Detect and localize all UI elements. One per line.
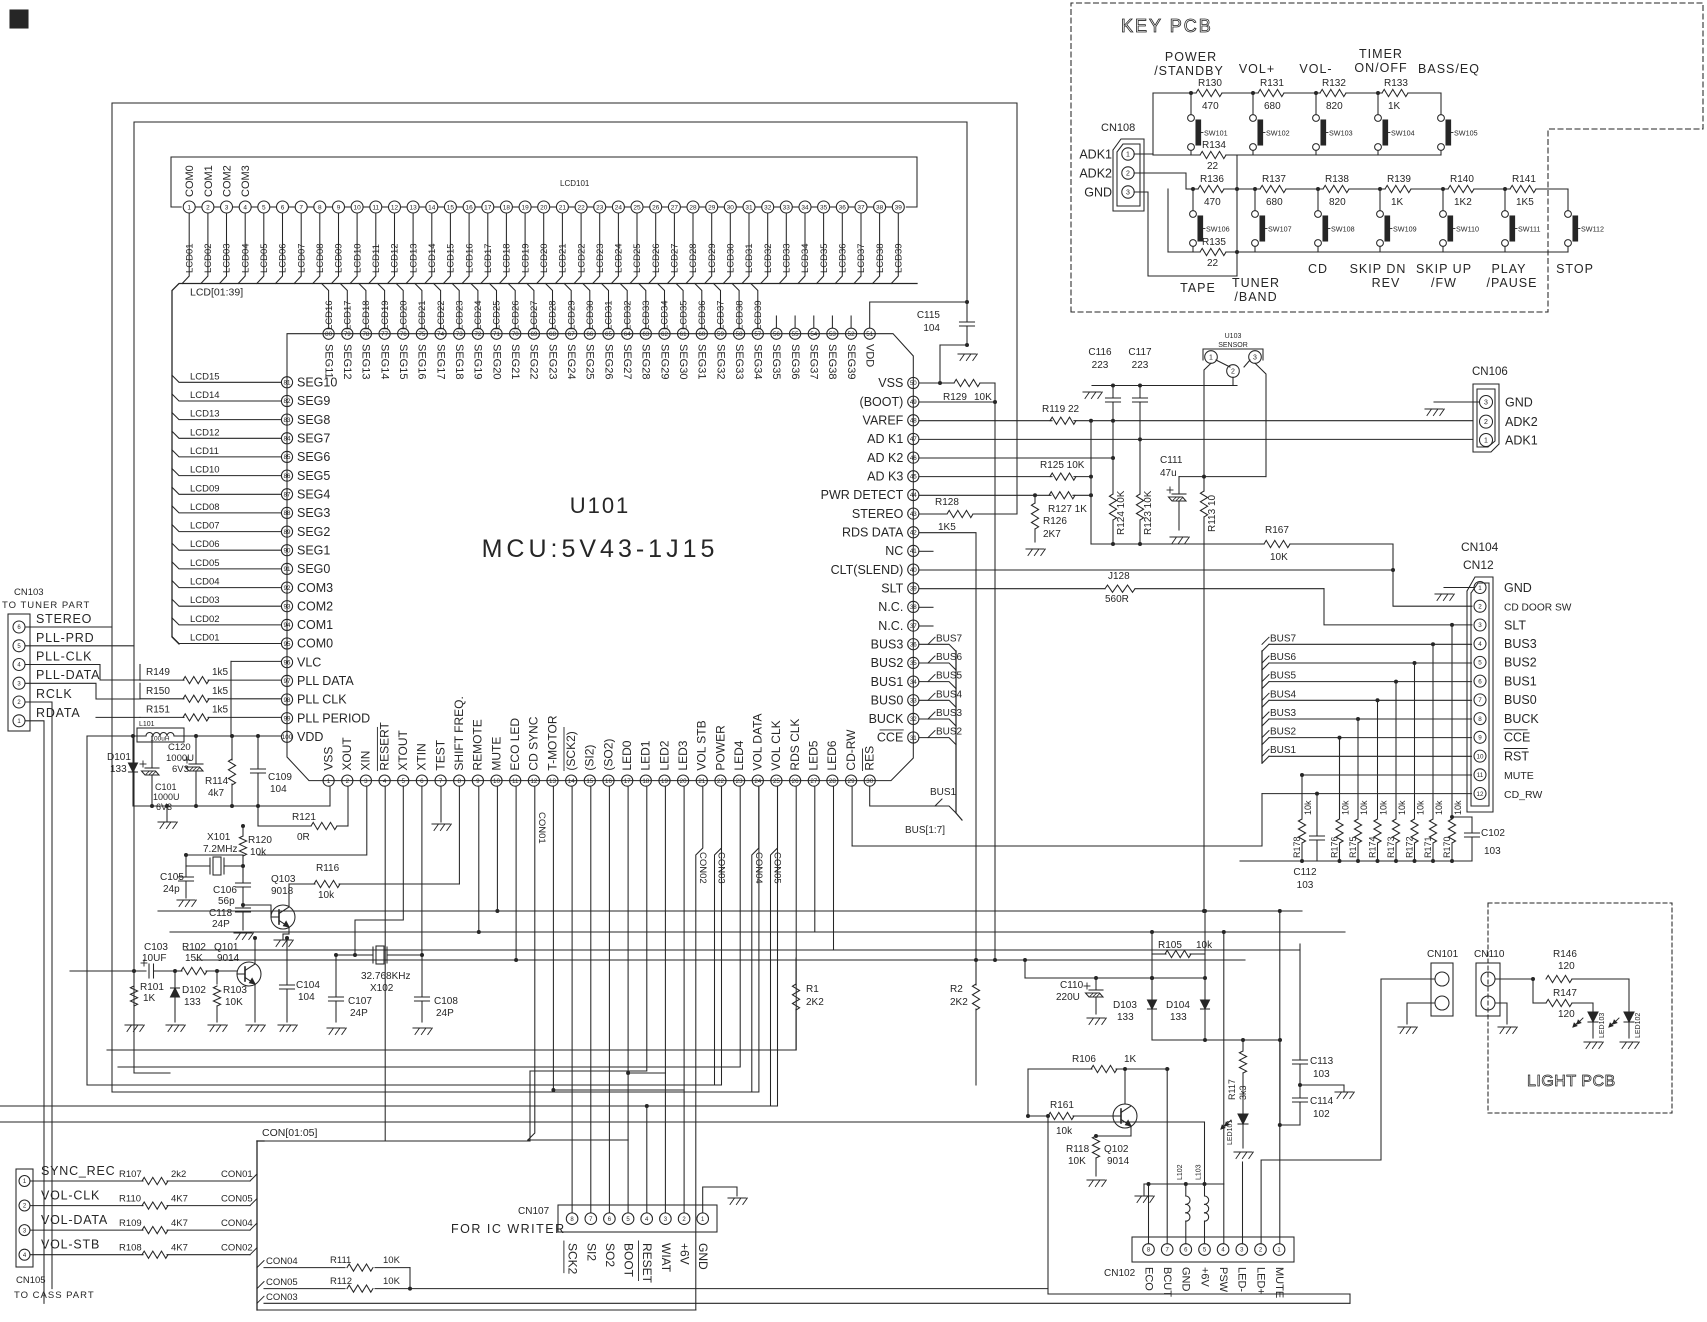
svg-text:73: 73 [456, 331, 463, 338]
ground [246, 1025, 265, 1032]
junction [1251, 91, 1255, 95]
svg-text:4: 4 [1478, 641, 1482, 648]
svg-text:LCD31: LCD31 [744, 243, 755, 273]
svg-text:LED0: LED0 [620, 740, 634, 770]
ground [1335, 1092, 1354, 1099]
svg-text:LCD20: LCD20 [398, 300, 409, 330]
svg-text:LCD28: LCD28 [548, 300, 559, 330]
svg-text:2k2: 2k2 [171, 1169, 186, 1180]
ground [958, 354, 977, 361]
svg-text:C103: C103 [144, 942, 168, 953]
svg-text:47: 47 [910, 436, 917, 443]
wire CN102 MUTE [1279, 911, 1281, 1244]
svg-text:RDS DATA: RDS DATA [842, 526, 904, 540]
svg-text:R130: R130 [1198, 78, 1222, 89]
junction [1202, 909, 1206, 913]
wire sensor pin2 [1232, 377, 1234, 385]
svg-text:GND: GND [1084, 186, 1112, 200]
svg-text:SEG38: SEG38 [826, 344, 838, 379]
svg-text:LED-: LED- [1236, 1267, 1248, 1292]
junction [1202, 475, 1206, 479]
wire BUS6 to resistor [1414, 663, 1416, 818]
svg-text:LED103: LED103 [1599, 1013, 1606, 1038]
junction [131, 734, 135, 738]
svg-text:2K7: 2K7 [1043, 529, 1061, 540]
svg-text:1K: 1K [1388, 101, 1401, 112]
svg-text:R103: R103 [223, 985, 247, 996]
wire CN110 pin2 to ground [1495, 1003, 1507, 1024]
svg-text:TUNER: TUNER [1232, 276, 1280, 290]
svg-text:16: 16 [605, 778, 612, 785]
svg-text:SCK2: SCK2 [566, 1243, 580, 1275]
svg-text:R175: R175 [1348, 836, 1358, 858]
svg-text:C110: C110 [1060, 980, 1084, 991]
svg-text:LCD01: LCD01 [190, 633, 220, 644]
svg-text:SEG26: SEG26 [602, 344, 614, 379]
svg-text:D102: D102 [182, 985, 206, 996]
capacitor C101 electrolytic [140, 736, 180, 812]
svg-text:37: 37 [857, 204, 865, 211]
wire BUS3 to resistor [1357, 719, 1359, 818]
ground [1087, 1180, 1106, 1187]
junction [173, 969, 177, 973]
capacitor C120 electrolytic [166, 736, 203, 806]
resistor R133 [1382, 78, 1408, 112]
resistor R125 [919, 460, 1091, 480]
svg-text:CN102: CN102 [1104, 1268, 1136, 1279]
connector CN104 CN12 [1461, 540, 1572, 812]
wire T-MOTOR pin13 [552, 786, 554, 1090]
svg-text:R135: R135 [1202, 237, 1226, 248]
svg-text:R141: R141 [1512, 174, 1536, 185]
wire to C114 node [1279, 1040, 1281, 1125]
connector CN107 [451, 1205, 717, 1284]
connector CN101 [1427, 949, 1459, 1016]
svg-text:R170: R170 [1442, 836, 1452, 858]
svg-text:T-MOTOR: T-MOTOR [545, 715, 559, 770]
resistor R126 [1031, 495, 1067, 542]
svg-text:AD K1: AD K1 [867, 432, 903, 446]
svg-text:5: 5 [626, 1217, 630, 1223]
svg-text:104: 104 [923, 323, 940, 334]
junction [495, 909, 499, 913]
junction [514, 958, 518, 962]
svg-text:RESET: RESET [640, 1243, 654, 1284]
svg-text:R101: R101 [140, 982, 164, 993]
svg-text:BUS2: BUS2 [1504, 656, 1537, 670]
connector CN103 [2, 587, 100, 731]
resistor R167 [1260, 525, 1393, 563]
wire gnd stem [1143, 1184, 1145, 1196]
LIGHT PCB title [1527, 1073, 1616, 1090]
svg-text:STOP: STOP [1556, 262, 1594, 276]
svg-text:XOUT: XOUT [340, 737, 354, 771]
svg-text:1: 1 [17, 719, 21, 725]
svg-text:99: 99 [284, 715, 291, 722]
resistor R135 [1200, 237, 1226, 269]
svg-text:21: 21 [698, 778, 705, 785]
resistor R101 [130, 971, 164, 1022]
svg-text:R110: R110 [119, 1194, 141, 1205]
wire inner perimeter net [134, 122, 967, 1073]
svg-text:R119 22: R119 22 [1042, 404, 1080, 415]
svg-text:SEG39: SEG39 [845, 344, 857, 379]
resistor R147 [1533, 979, 1593, 1020]
svg-text:CN110: CN110 [1474, 949, 1505, 960]
junction [993, 400, 997, 404]
svg-text:46: 46 [910, 455, 917, 462]
svg-text:17: 17 [624, 778, 631, 785]
svg-text:LCD13: LCD13 [408, 243, 419, 273]
capacitor C112 [1293, 832, 1324, 891]
svg-text:LCD05: LCD05 [190, 558, 220, 569]
svg-text:Q102: Q102 [1104, 1144, 1129, 1155]
resistor R111 [264, 1255, 410, 1289]
svg-text:R133: R133 [1384, 78, 1408, 89]
svg-text:78: 78 [362, 331, 369, 338]
svg-text:83: 83 [284, 417, 291, 424]
svg-text:BOOT: BOOT [622, 1243, 636, 1278]
svg-text:LCD12: LCD12 [390, 243, 401, 273]
svg-text:RCLK: RCLK [36, 687, 73, 701]
junction [1147, 1182, 1151, 1186]
svg-text:94: 94 [284, 622, 291, 629]
diode D101 [107, 736, 138, 806]
wire XTOUT pin5 [355, 786, 403, 955]
wire BUS4 to resistor [1377, 700, 1379, 818]
svg-text:PLL-CLK: PLL-CLK [36, 650, 92, 664]
wire row2 bottom left drop [1167, 189, 1169, 252]
svg-text:LCD06: LCD06 [190, 539, 220, 550]
junction [1450, 815, 1454, 819]
svg-text:SEG21: SEG21 [509, 344, 521, 379]
svg-text:SEG25: SEG25 [584, 344, 596, 379]
svg-text:9: 9 [1478, 735, 1482, 742]
junction [1203, 976, 1207, 980]
switch SW108 [1315, 189, 1355, 252]
svg-text:2: 2 [346, 778, 350, 785]
svg-text:LCD17: LCD17 [483, 243, 494, 273]
svg-text:SEG16: SEG16 [416, 344, 428, 379]
svg-text:TAPE: TAPE [1180, 281, 1216, 295]
svg-text:100uH: 100uH [150, 736, 169, 743]
wire LED2 pin19 [664, 786, 666, 1073]
svg-text:680: 680 [1264, 101, 1281, 112]
net label CON01 [536, 812, 547, 844]
junction [1253, 187, 1257, 191]
svg-text:79: 79 [344, 331, 351, 338]
inductor L101 [127, 721, 281, 743]
wire BUS5 right hook [1262, 682, 1269, 689]
svg-text:SI2: SI2 [584, 1243, 598, 1261]
svg-text:41: 41 [910, 548, 917, 555]
svg-text:220U: 220U [1056, 992, 1080, 1003]
junction [1338, 859, 1342, 863]
svg-text:14: 14 [568, 778, 575, 785]
wire AD K2 [919, 457, 1113, 459]
svg-text:18: 18 [642, 778, 649, 785]
svg-text:43: 43 [910, 511, 917, 518]
svg-text:10k: 10k [1341, 800, 1351, 815]
svg-text:R131: R131 [1260, 78, 1284, 89]
svg-text:VOL-: VOL- [1299, 62, 1332, 76]
svg-text:10k: 10k [1359, 800, 1369, 815]
U101 right pins 50-31 [821, 376, 919, 745]
svg-text:SEG20: SEG20 [490, 344, 502, 379]
svg-text:LED3: LED3 [676, 740, 690, 770]
junction [974, 958, 978, 962]
junction [1033, 493, 1037, 497]
ground [1498, 1027, 1517, 1034]
wire CN110 pin1 to R146 [1495, 978, 1533, 980]
wire ADK1 stub [1134, 153, 1153, 155]
svg-text:CON[01:05]: CON[01:05] [262, 1127, 318, 1139]
svg-text:LED101: LED101 [1227, 1120, 1234, 1145]
svg-text:PLAY: PLAY [1491, 262, 1526, 276]
net label CON04 row [257, 1256, 298, 1268]
svg-text:34: 34 [801, 204, 809, 211]
svg-text:X101: X101 [207, 832, 231, 843]
svg-text:SKIP DN: SKIP DN [1350, 262, 1407, 276]
wire BUS2 to CN104 pin [1269, 737, 1472, 739]
wire net BUS6 stub [919, 663, 956, 670]
LIGHT PCB dashed boundary [1488, 903, 1672, 1113]
wire [139, 665, 141, 681]
svg-text:GND: GND [1505, 396, 1533, 410]
wire POWER pin22 CON03 [715, 786, 722, 1085]
resistor R149 [140, 667, 281, 684]
svg-text:31: 31 [910, 735, 917, 742]
svg-text:17: 17 [484, 204, 492, 211]
svg-text:30: 30 [727, 204, 735, 211]
junction [1315, 792, 1319, 796]
svg-text:36: 36 [839, 204, 847, 211]
wire diode output rail [1152, 1039, 1280, 1041]
svg-text:10k: 10k [1434, 800, 1444, 815]
svg-text:COM3: COM3 [297, 581, 333, 595]
svg-text:C109: C109 [268, 772, 292, 783]
junction [184, 853, 188, 857]
wire CN102 LED- [1242, 1162, 1244, 1244]
wire BUS2 right hook [1262, 738, 1269, 745]
svg-text:SEG3: SEG3 [297, 506, 330, 520]
ground [1083, 392, 1102, 399]
svg-text:L102: L102 [1177, 1164, 1184, 1180]
svg-text:65: 65 [605, 331, 612, 338]
wire R105 left up [1151, 932, 1153, 954]
wire TEST pin7 [440, 786, 442, 822]
wire SO2 pin16 to CN107 [608, 786, 610, 1212]
svg-text:LCD06: LCD06 [278, 243, 289, 273]
resistor R124 [1109, 421, 1127, 544]
svg-text:R140: R140 [1450, 174, 1474, 185]
svg-text:59: 59 [717, 331, 724, 338]
svg-text:9014: 9014 [1107, 1156, 1130, 1167]
svg-text:LCD35: LCD35 [678, 300, 689, 330]
wire AD K1 to CN106 [919, 438, 1473, 440]
ground [125, 1025, 144, 1032]
wire XTIN pin6 [421, 786, 423, 955]
svg-text:VDD: VDD [297, 730, 323, 744]
svg-text:SW102: SW102 [1266, 129, 1290, 138]
wire BUS7 to resistor [1432, 644, 1434, 818]
svg-text:R173: R173 [1386, 836, 1396, 858]
svg-text:CCE: CCE [877, 731, 903, 745]
wire ground stem [166, 806, 168, 822]
LCD module LCD101 [171, 157, 917, 207]
svg-text:29: 29 [708, 204, 716, 211]
svg-text:BUS7: BUS7 [936, 633, 963, 644]
wire to CN104 CD DOOR SW [1393, 544, 1472, 606]
svg-text:SW110: SW110 [1456, 225, 1479, 234]
svg-text:LCD39: LCD39 [753, 300, 764, 330]
wire LED6 pin28 [833, 786, 835, 950]
resistor R109 [30, 1213, 257, 1234]
svg-text:SENSOR: SENSOR [1218, 342, 1248, 349]
svg-text:2: 2 [17, 700, 21, 706]
svg-text:51: 51 [866, 331, 873, 338]
svg-text:SEG33: SEG33 [733, 344, 745, 379]
resistor R127 [919, 492, 1091, 515]
resistor R137 [1260, 174, 1286, 208]
svg-text:LCD32: LCD32 [622, 300, 633, 330]
wire BUS4 to CN104 pin [1269, 699, 1472, 701]
junction [1111, 419, 1115, 423]
svg-text:SEG4: SEG4 [297, 488, 330, 502]
svg-text:3: 3 [23, 1228, 27, 1234]
LED LED101 [1221, 1114, 1248, 1148]
svg-text:COM1: COM1 [203, 165, 215, 197]
svg-text:STEREO: STEREO [36, 612, 92, 626]
ground [1425, 409, 1444, 416]
svg-text:32.768KHz: 32.768KHz [361, 971, 410, 982]
svg-text:28: 28 [829, 778, 836, 785]
ground [208, 1025, 227, 1032]
svg-text:LCD38: LCD38 [875, 243, 886, 273]
svg-text:R129: R129 [943, 392, 967, 403]
wire CN104 GND [1444, 587, 1474, 589]
wire sensor pin3 [1255, 363, 1266, 476]
svg-text:87: 87 [284, 492, 291, 499]
resistor R114 [205, 736, 236, 806]
svg-text:10K: 10K [1270, 552, 1288, 563]
capacitor C111 electrolytic [1160, 455, 1186, 530]
svg-text:BUS1: BUS1 [930, 787, 957, 798]
junction [1046, 1114, 1050, 1118]
net label BUS7 left [928, 633, 963, 644]
svg-text:3: 3 [364, 778, 368, 785]
junction [215, 969, 219, 973]
svg-text:2: 2 [1478, 604, 1482, 611]
svg-text:VOL-CLK: VOL-CLK [41, 1189, 100, 1203]
svg-text:R146: R146 [1553, 949, 1577, 960]
svg-text:POWER: POWER [713, 725, 727, 771]
junction [230, 734, 234, 738]
svg-text:1K5: 1K5 [938, 522, 956, 533]
svg-text:R149: R149 [146, 667, 170, 678]
svg-text:SW103: SW103 [1329, 129, 1353, 138]
wire long net F to pin23 [118, 786, 740, 1067]
junction [1235, 187, 1239, 191]
svg-text:COM0: COM0 [184, 165, 196, 197]
svg-text:LIGHT PCB: LIGHT PCB [1527, 1073, 1616, 1090]
wire BUS2 to resistor [1339, 738, 1341, 818]
wire BUS3 right hook [1262, 719, 1269, 726]
svg-text:SEG19: SEG19 [472, 344, 484, 379]
junction [241, 824, 245, 828]
svg-text:U101: U101 [570, 493, 631, 518]
junction [1111, 384, 1115, 388]
svg-text:COM2: COM2 [222, 165, 234, 197]
svg-text:CCE: CCE [1504, 731, 1530, 745]
junction [1314, 91, 1318, 95]
svg-text:11: 11 [372, 204, 379, 211]
svg-text:10UF: 10UF [142, 953, 166, 964]
svg-text:820: 820 [1329, 197, 1346, 208]
svg-text:R151: R151 [146, 704, 170, 715]
wire VDD down left [86, 736, 88, 1085]
svg-text:LCD24: LCD24 [614, 243, 625, 273]
svg-text:8: 8 [570, 1217, 574, 1223]
ground [1234, 1152, 1253, 1159]
svg-text:CD: CD [1308, 262, 1328, 276]
svg-text:R106: R106 [1072, 1054, 1096, 1065]
svg-text:BUS0: BUS0 [871, 693, 904, 707]
net label BUS5 left [928, 671, 963, 682]
svg-text:PWR DETECT: PWR DETECT [821, 488, 904, 502]
bus LCD[01:39] [172, 284, 917, 645]
wire NC stub [919, 625, 933, 627]
svg-text:LCD39: LCD39 [894, 243, 905, 273]
wire VOL CLK pin25 CON05 [771, 786, 778, 1106]
svg-text:LCD07: LCD07 [190, 521, 220, 532]
junction [1184, 1182, 1188, 1186]
svg-text:CON02: CON02 [697, 852, 708, 884]
net label BUS1 right [1262, 745, 1297, 756]
svg-text:40: 40 [910, 567, 917, 574]
sensor U103 [1203, 333, 1263, 377]
wire key row2 bottom rail [1168, 251, 1568, 253]
svg-text:AD K3: AD K3 [867, 470, 903, 484]
svg-text:(SCK2): (SCK2) [564, 731, 578, 770]
svg-text:11: 11 [1477, 772, 1484, 779]
svg-text:3: 3 [1484, 400, 1488, 407]
junction [1278, 909, 1282, 913]
junction [1441, 187, 1445, 191]
svg-text:ECO LED: ECO LED [508, 718, 522, 771]
switch SW105 [1438, 93, 1478, 155]
svg-text:LCD27: LCD27 [670, 243, 681, 273]
svg-text:C108: C108 [434, 996, 458, 1007]
wire bottom link [1048, 1116, 1350, 1303]
svg-text:LCD24: LCD24 [473, 300, 484, 330]
wire ADK2 to row2 [1134, 173, 1186, 189]
svg-text:LCD36: LCD36 [838, 243, 849, 273]
svg-text:D104: D104 [1166, 1000, 1190, 1011]
black page marker [10, 10, 28, 28]
svg-text:VOL-STB: VOL-STB [41, 1238, 100, 1252]
svg-text:+6V: +6V [678, 1243, 692, 1265]
svg-text:103: 103 [1297, 880, 1314, 891]
svg-text:45: 45 [910, 474, 917, 481]
resistor R107 [30, 1164, 257, 1185]
svg-text:LCD16: LCD16 [464, 243, 475, 273]
svg-text:8: 8 [1147, 1248, 1151, 1254]
svg-text:5: 5 [401, 778, 405, 785]
svg-text:22: 22 [1207, 161, 1219, 172]
svg-text:4: 4 [645, 1217, 649, 1223]
junction [1356, 717, 1360, 721]
